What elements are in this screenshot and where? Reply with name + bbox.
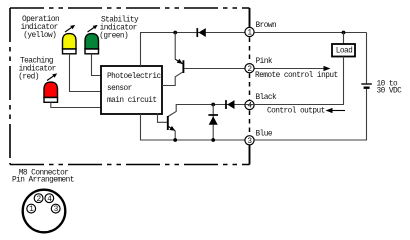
label: Stability indicator (green) <box>99 16 139 40</box>
connector pin 1 <box>27 204 36 213</box>
svg-text:main circuit: main circuit <box>107 97 157 105</box>
label: Photoelectric sensor main circuit <box>107 73 162 105</box>
dashed cable line between pins <box>249 38 251 135</box>
diode D5 on black wire (pointing left) <box>226 100 235 109</box>
wire: load to black wire <box>245 57 344 105</box>
svg-text:Remote control input: Remote control input <box>255 72 338 80</box>
base bar <box>182 60 184 73</box>
svg-text:sensor: sensor <box>107 85 132 93</box>
svg-text:(yellow): (yellow) <box>23 32 56 40</box>
node: junction black wire / zener <box>211 103 215 107</box>
wire: blue rail from box bottom <box>141 114 245 140</box>
svg-text:Black: Black <box>256 94 278 102</box>
wire: yellow LED to main circuit box <box>70 54 102 92</box>
wire: right rail bottom (battery to blue) <box>254 89 366 140</box>
wire: brown rail from box top <box>141 33 245 67</box>
wire: pin2 remote control input arrow <box>254 68 327 70</box>
diode D4 on brown rail (pointing left) <box>197 28 206 37</box>
connector pin 2 <box>34 194 43 203</box>
arrow on green LED <box>88 25 98 32</box>
battery BT1 <box>361 84 372 88</box>
svg-text:Control output: Control output <box>267 107 325 115</box>
pin 3 circle <box>245 136 254 145</box>
LED D2 green stability indicator <box>85 34 99 54</box>
node: junction emitter / blue rail <box>173 138 177 142</box>
label: 10 to 30 VDC <box>377 81 403 96</box>
svg-text:Brown: Brown <box>256 22 277 30</box>
emitter with arrow to blue rail <box>168 126 175 130</box>
load box <box>332 44 355 57</box>
svg-text:indicator: indicator <box>100 24 137 32</box>
connector pin 3 <box>51 204 60 213</box>
label: Operation indicator (yellow) <box>21 16 60 40</box>
wire: load branch upper <box>343 33 345 45</box>
label: Teaching indicator (red) <box>18 58 56 82</box>
collector <box>162 72 183 86</box>
svg-text:(green): (green) <box>99 32 128 40</box>
LED D1 yellow operation indicator <box>63 34 77 54</box>
svg-text:Photoelectric: Photoelectric <box>107 73 162 81</box>
node: junction brown / load branch <box>342 31 346 35</box>
wire: right rail top (brown to battery) <box>366 33 368 84</box>
connector pin 4 <box>45 194 54 203</box>
svg-text:Stability: Stability <box>101 16 139 24</box>
LED D3 red teaching indicator <box>44 82 58 102</box>
transistor Q1 (PNP, upper) <box>162 33 183 86</box>
wire: emitter feed from brown rail <box>174 33 176 60</box>
svg-text:Pink: Pink <box>256 58 273 66</box>
svg-text:Blue: Blue <box>256 130 273 138</box>
main circuit box U1 <box>101 66 162 114</box>
zener diode D6 (pointing up) <box>208 105 218 141</box>
svg-text:Operation: Operation <box>22 16 59 24</box>
wire: base of Q1 to pin 2 <box>184 68 245 70</box>
emitter with arrow into bar <box>175 59 183 64</box>
wire: brown from pin1 to right rail <box>254 32 366 34</box>
svg-text:(red): (red) <box>18 74 39 82</box>
base bar <box>167 116 169 130</box>
arrow on yellow LED <box>65 25 75 32</box>
svg-text:Pin Arrangement: Pin Arrangement <box>12 177 74 185</box>
node: junction zener / blue rail <box>211 138 215 142</box>
svg-text:30 VDC: 30 VDC <box>377 87 403 95</box>
arrow on red LED <box>47 73 57 80</box>
wire: red LED to main circuit box <box>51 102 101 107</box>
node: junction on brown rail <box>173 31 177 35</box>
sensor enclosure border (dash-dot outline) <box>10 8 250 165</box>
wire: green LED to main circuit box <box>92 54 102 76</box>
wire: black line pin4 to transistors <box>168 105 245 117</box>
svg-text:Teaching: Teaching <box>20 58 54 66</box>
svg-text:indicator: indicator <box>19 66 56 74</box>
pin 1 circle <box>245 27 254 36</box>
base wire from box bottom <box>158 113 168 122</box>
transistor Q2 (NPN, lower) <box>158 113 176 140</box>
svg-text:indicator: indicator <box>21 24 58 32</box>
svg-text:Load: Load <box>336 48 353 56</box>
pin 4 circle <box>245 100 254 109</box>
M8 connector face <box>23 190 66 233</box>
label: M8 Connector Pin Arrangement <box>12 169 74 184</box>
pin 2 circle <box>245 64 254 73</box>
